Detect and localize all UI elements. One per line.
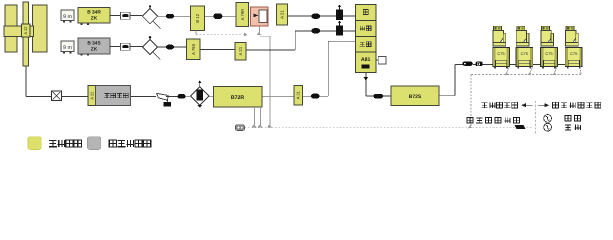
- plucker arm: [4, 26, 34, 37]
- svg-text:A81: A81: [361, 57, 371, 63]
- machine A21 third: [294, 86, 303, 106]
- svg-text:9 m: 9 m: [63, 45, 72, 51]
- sensor box: [376, 56, 386, 64]
- card C75 #3: [541, 26, 558, 68]
- label rieter supplier: [481, 102, 517, 108]
- wire A81 out: [364, 73, 374, 97]
- svg-text:C75: C75: [497, 51, 505, 56]
- wire: [303, 95, 312, 97]
- cell linen: [360, 42, 371, 47]
- card drop #2: [527, 67, 532, 76]
- wire: [343, 30, 356, 32]
- card C75 #4: [565, 26, 582, 68]
- wire: [205, 15, 214, 17]
- wire: [130, 15, 142, 17]
- diverter fire: [251, 7, 269, 26]
- fan F2: [213, 13, 222, 19]
- suction duct dotted: [245, 127, 534, 129]
- svg-text:C75: C75: [570, 51, 578, 56]
- wire to mixer: [26, 95, 52, 97]
- svg-text:ZK: ZK: [91, 16, 98, 22]
- fan circle opening: [544, 123, 552, 131]
- bypass dashed B12: [196, 31, 247, 37]
- fan F10: [476, 62, 483, 66]
- wire riser to linen: [320, 41, 356, 96]
- card C75 #2: [516, 26, 533, 68]
- legend rieter text: [49, 140, 82, 147]
- wire: [473, 63, 476, 65]
- fan box R: [121, 12, 131, 19]
- machine A21 second: [235, 42, 246, 60]
- wire B72S to cards: [439, 64, 462, 95]
- svg-text:A 21: A 21: [296, 90, 301, 99]
- suction fan icon: [515, 125, 526, 129]
- machine A21 first: [277, 4, 288, 25]
- svg-text:B72S: B72S: [409, 94, 422, 100]
- wire: [262, 95, 294, 97]
- fan F4: [311, 94, 320, 99]
- traverse rail: [23, 2, 29, 66]
- svg-text:C75: C75: [545, 51, 553, 56]
- feed valve fiber: [336, 20, 343, 35]
- wire: [209, 95, 214, 97]
- card C75 #1: [493, 26, 510, 68]
- card drop #4: [579, 67, 581, 75]
- machine B34S ZK: [78, 38, 110, 56]
- svg-text:A 79S: A 79S: [191, 44, 196, 55]
- svg-text:ZK: ZK: [91, 46, 98, 52]
- wire: [287, 15, 311, 17]
- card waste bus: [471, 74, 581, 76]
- machine A79R: [236, 3, 249, 27]
- waste drop B72R a: [252, 107, 257, 127]
- wire: [320, 15, 336, 17]
- feeder 9m S: [61, 41, 74, 53]
- machine B34R ZK: [78, 8, 110, 25]
- feed valve cotton: [336, 4, 343, 20]
- wire: [174, 46, 187, 48]
- label carding: [565, 116, 580, 122]
- wire: [222, 15, 236, 17]
- card drop #1: [504, 67, 509, 76]
- cell A81 label: [361, 57, 371, 68]
- cell cotton: [363, 10, 368, 15]
- wire row2 riser: [246, 31, 312, 50]
- condenser C1: [142, 5, 160, 29]
- fan F5: [312, 14, 321, 19]
- condenser C3: [191, 80, 209, 108]
- wire: [174, 15, 191, 17]
- wire A12 down: [25, 66, 27, 96]
- wire: [343, 15, 356, 17]
- waste drop B72R b: [258, 107, 263, 127]
- fan F9: [462, 62, 472, 66]
- condenser C2: [142, 35, 160, 59]
- svg-text:A 22: A 22: [89, 91, 94, 100]
- feeder 9m R: [61, 10, 74, 22]
- svg-text:A 12: A 12: [23, 26, 28, 35]
- card drop #3: [552, 67, 557, 76]
- wire: [200, 49, 235, 51]
- machine B72R: [214, 87, 263, 108]
- bale row right: [33, 5, 48, 52]
- svg-text:A 21: A 21: [238, 46, 243, 55]
- wire: [320, 30, 336, 32]
- wire: [158, 46, 166, 48]
- fan circle carding: [544, 115, 552, 123]
- svg-text:B 34R: B 34R: [87, 10, 101, 16]
- machine chuliidanyuan: [96, 86, 131, 106]
- label opening: [565, 125, 581, 131]
- wire: [130, 46, 142, 48]
- svg-text:B 34S: B 34S: [87, 40, 101, 46]
- waste path diverter: [257, 26, 273, 127]
- junction box X: [52, 91, 62, 101]
- fan F1: [166, 14, 174, 19]
- machine A12 label: [21, 24, 30, 37]
- svg-text:B72R: B72R: [231, 95, 245, 101]
- machine A79S: [187, 39, 201, 60]
- svg-text:C75: C75: [521, 51, 529, 56]
- fan F7: [312, 28, 321, 33]
- machine A22: [88, 86, 96, 106]
- wire: [131, 95, 156, 97]
- wire: [383, 95, 391, 97]
- card feed duct: [483, 63, 582, 65]
- svg-text:A 21: A 21: [279, 10, 284, 19]
- machine B72S: [391, 86, 439, 106]
- wire: [186, 95, 191, 97]
- wire: [166, 95, 178, 97]
- label non rieter supplier: [553, 102, 601, 108]
- bale row left: [5, 5, 17, 52]
- wire: [110, 15, 121, 17]
- separator: [157, 93, 172, 106]
- machine B12: [191, 6, 205, 31]
- svg-text:A 79R: A 79R: [240, 9, 245, 20]
- fan F3: [178, 94, 186, 99]
- legend temafa text: [109, 140, 151, 147]
- cell fiber: [360, 26, 371, 31]
- suction fan unit: [236, 125, 245, 131]
- wire: [61, 95, 88, 97]
- blender A81 frame: [356, 5, 377, 73]
- fan F8: [374, 94, 384, 99]
- label central suction: [467, 118, 519, 124]
- legend temafa swatch: [88, 137, 101, 150]
- suction drop cards: [468, 75, 472, 129]
- wire: [110, 46, 121, 48]
- legend rieter swatch: [28, 137, 41, 150]
- divider dashed: [534, 101, 536, 134]
- svg-text:9 m: 9 m: [63, 14, 72, 20]
- wire: [158, 15, 166, 17]
- fan box S: [121, 43, 131, 50]
- separator arrows: [521, 103, 549, 107]
- fan F6: [166, 45, 174, 50]
- svg-text:B 12: B 12: [195, 13, 200, 22]
